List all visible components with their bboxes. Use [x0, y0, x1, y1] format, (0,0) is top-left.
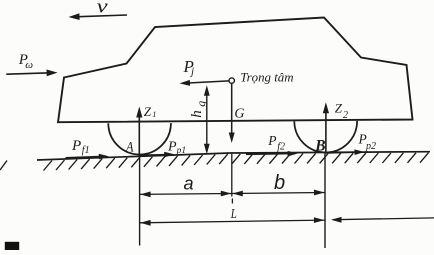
svg-text:A: A [125, 138, 134, 154]
svg-text:a: a [184, 173, 194, 193]
svg-text:G: G [234, 107, 244, 122]
svg-text:f2: f2 [277, 142, 285, 153]
svg-text:Z: Z [335, 101, 343, 116]
svg-text:p1: p1 [176, 146, 187, 156]
svg-text:B: B [314, 137, 325, 154]
svg-text:Trọng tâm: Trọng tâm [240, 71, 293, 85]
svg-text:p2: p2 [365, 141, 376, 152]
svg-text:h: h [189, 110, 205, 118]
svg-text:1: 1 [152, 109, 156, 119]
svg-text:f1: f1 [82, 145, 90, 156]
svg-text:P: P [267, 133, 276, 148]
svg-text:v: v [97, 0, 108, 17]
svg-text:b: b [274, 172, 285, 194]
svg-text:ω: ω [25, 59, 33, 71]
svg-text:P: P [71, 138, 81, 154]
svg-text:L: L [230, 206, 237, 222]
svg-text:2: 2 [343, 110, 348, 121]
svg-text:g: g [194, 101, 208, 107]
svg-text:P: P [167, 139, 177, 154]
svg-text:Z: Z [144, 104, 152, 119]
